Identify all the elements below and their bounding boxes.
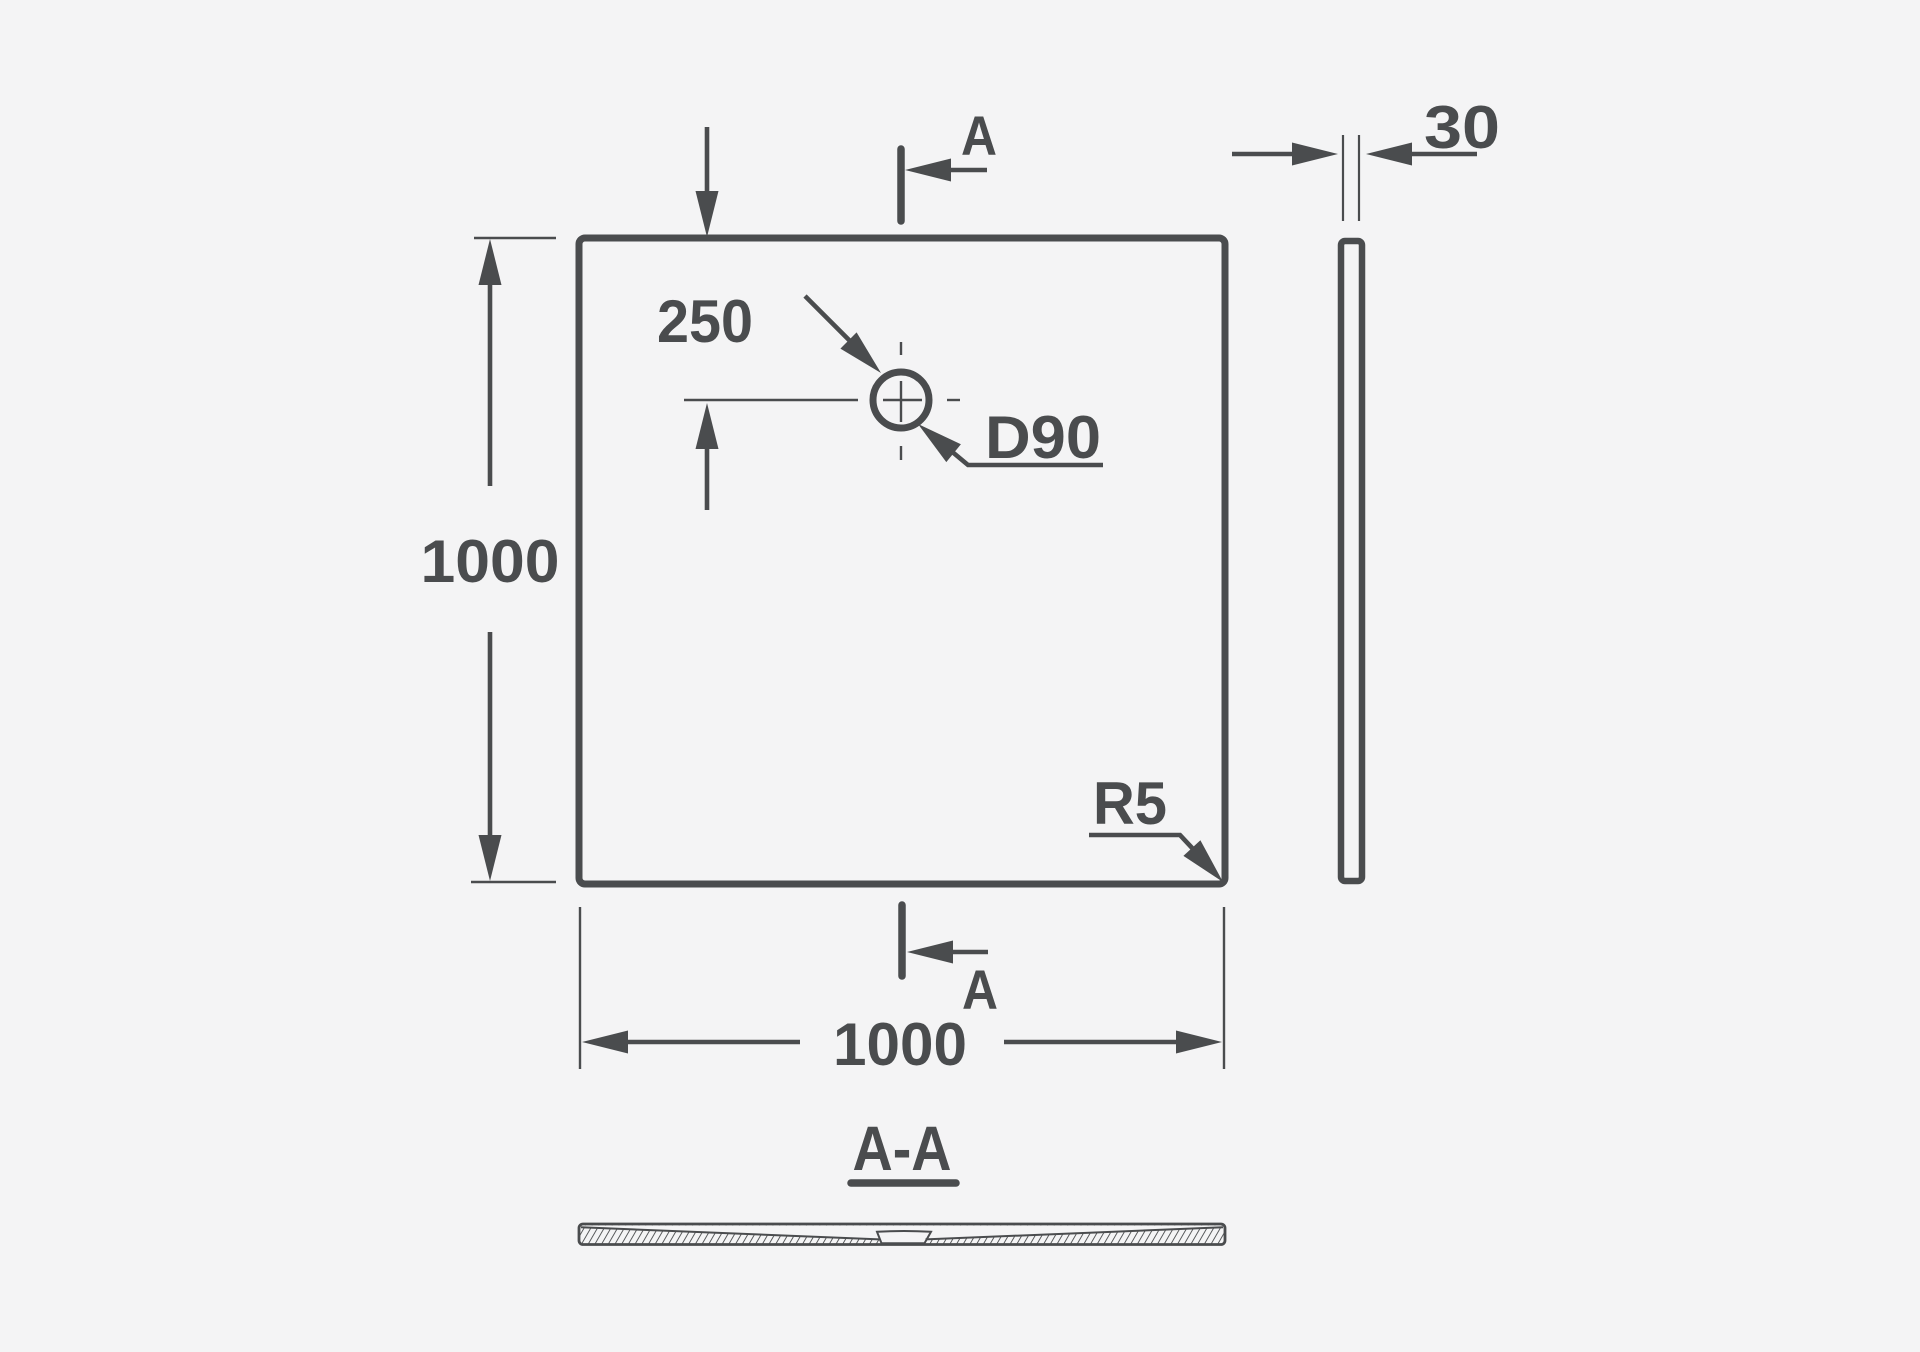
up arrowhead at drain centerline xyxy=(696,403,719,449)
top down-arrow shaft (250 dim) xyxy=(705,127,710,195)
side view: tray plate 30 thick xyxy=(1341,241,1362,881)
section outline slab xyxy=(579,1224,1225,1245)
section cut mark A bottom: tail xyxy=(951,950,988,955)
svg-text:30: 30 xyxy=(1424,94,1500,161)
bottom dim line right segment xyxy=(1004,1040,1178,1045)
section cut mark A bottom: tick xyxy=(898,905,906,976)
left dim extension tick bottom xyxy=(471,881,556,883)
bottom dim extension line left xyxy=(579,907,581,1069)
30 dim extension line left xyxy=(1342,135,1344,221)
R5 leader underline and diagonal xyxy=(1089,835,1194,850)
section cut mark A bottom: arrowhead xyxy=(907,941,953,964)
drain crosshair vertical main xyxy=(900,381,902,422)
drain crosshair horizontal right dash xyxy=(947,399,960,401)
diagonal leader arrowhead at circle xyxy=(840,332,881,373)
left dim extension tick top xyxy=(474,237,556,239)
section A-A profile xyxy=(579,1224,1225,1245)
A-A label underline xyxy=(851,1179,956,1187)
D90 leader arrowhead at circle xyxy=(918,424,961,462)
svg-text:1000: 1000 xyxy=(421,528,560,595)
svg-text:1000: 1000 xyxy=(833,1011,967,1078)
30 dim left arrowhead xyxy=(1292,143,1338,166)
left dim arrowhead up xyxy=(479,239,502,285)
left dim line lower segment xyxy=(488,632,493,837)
up arrow shaft below xyxy=(705,447,710,510)
section hatch fill xyxy=(580,1226,1224,1245)
bottom dim arrowhead right xyxy=(1176,1031,1222,1054)
svg-text:250: 250 xyxy=(657,288,753,355)
left dim line upper segment xyxy=(488,283,493,486)
svg-text:R5: R5 xyxy=(1093,770,1167,837)
section cut mark A top: arrowhead xyxy=(905,159,951,182)
drain crosshair vertical top dash xyxy=(900,342,902,355)
section basin white wedge above floor xyxy=(580,1226,1224,1240)
bottom dim line left segment xyxy=(626,1040,800,1045)
svg-text:A: A xyxy=(961,104,997,167)
30 dim right arrowhead xyxy=(1366,143,1412,166)
bottom dim extension line right xyxy=(1223,907,1225,1069)
R5 arrowhead at corner xyxy=(1183,840,1223,882)
bottom dim arrowhead left xyxy=(582,1031,628,1054)
plan view: tray outline square 1000x1000 xyxy=(579,238,1225,884)
drain crosshair vertical bottom dash xyxy=(900,446,902,460)
250 dim thin line to drain centerline xyxy=(684,399,858,401)
section cut mark A top: tick xyxy=(897,149,905,221)
section floor line left xyxy=(581,1227,880,1239)
svg-text:D90: D90 xyxy=(985,404,1101,471)
diagonal leader to drain (from 250 label) xyxy=(805,296,851,342)
left dim arrowhead down xyxy=(479,835,502,881)
30 dim left arrow tail xyxy=(1232,152,1294,157)
section drain boss xyxy=(877,1231,931,1243)
svg-text:A: A xyxy=(962,958,998,1021)
top down-arrowhead touching top edge xyxy=(696,191,719,237)
drain circle D90 xyxy=(873,372,929,428)
30 dim right arrow tail xyxy=(1410,152,1477,157)
section cut mark A top: tail xyxy=(949,168,987,173)
30 dim extension line right xyxy=(1358,135,1360,221)
section floor line right xyxy=(926,1227,1224,1239)
D90 leader line with underline xyxy=(950,450,1103,465)
drain crosshair horizontal main xyxy=(883,399,922,401)
svg-text:A-A: A-A xyxy=(853,1114,952,1184)
